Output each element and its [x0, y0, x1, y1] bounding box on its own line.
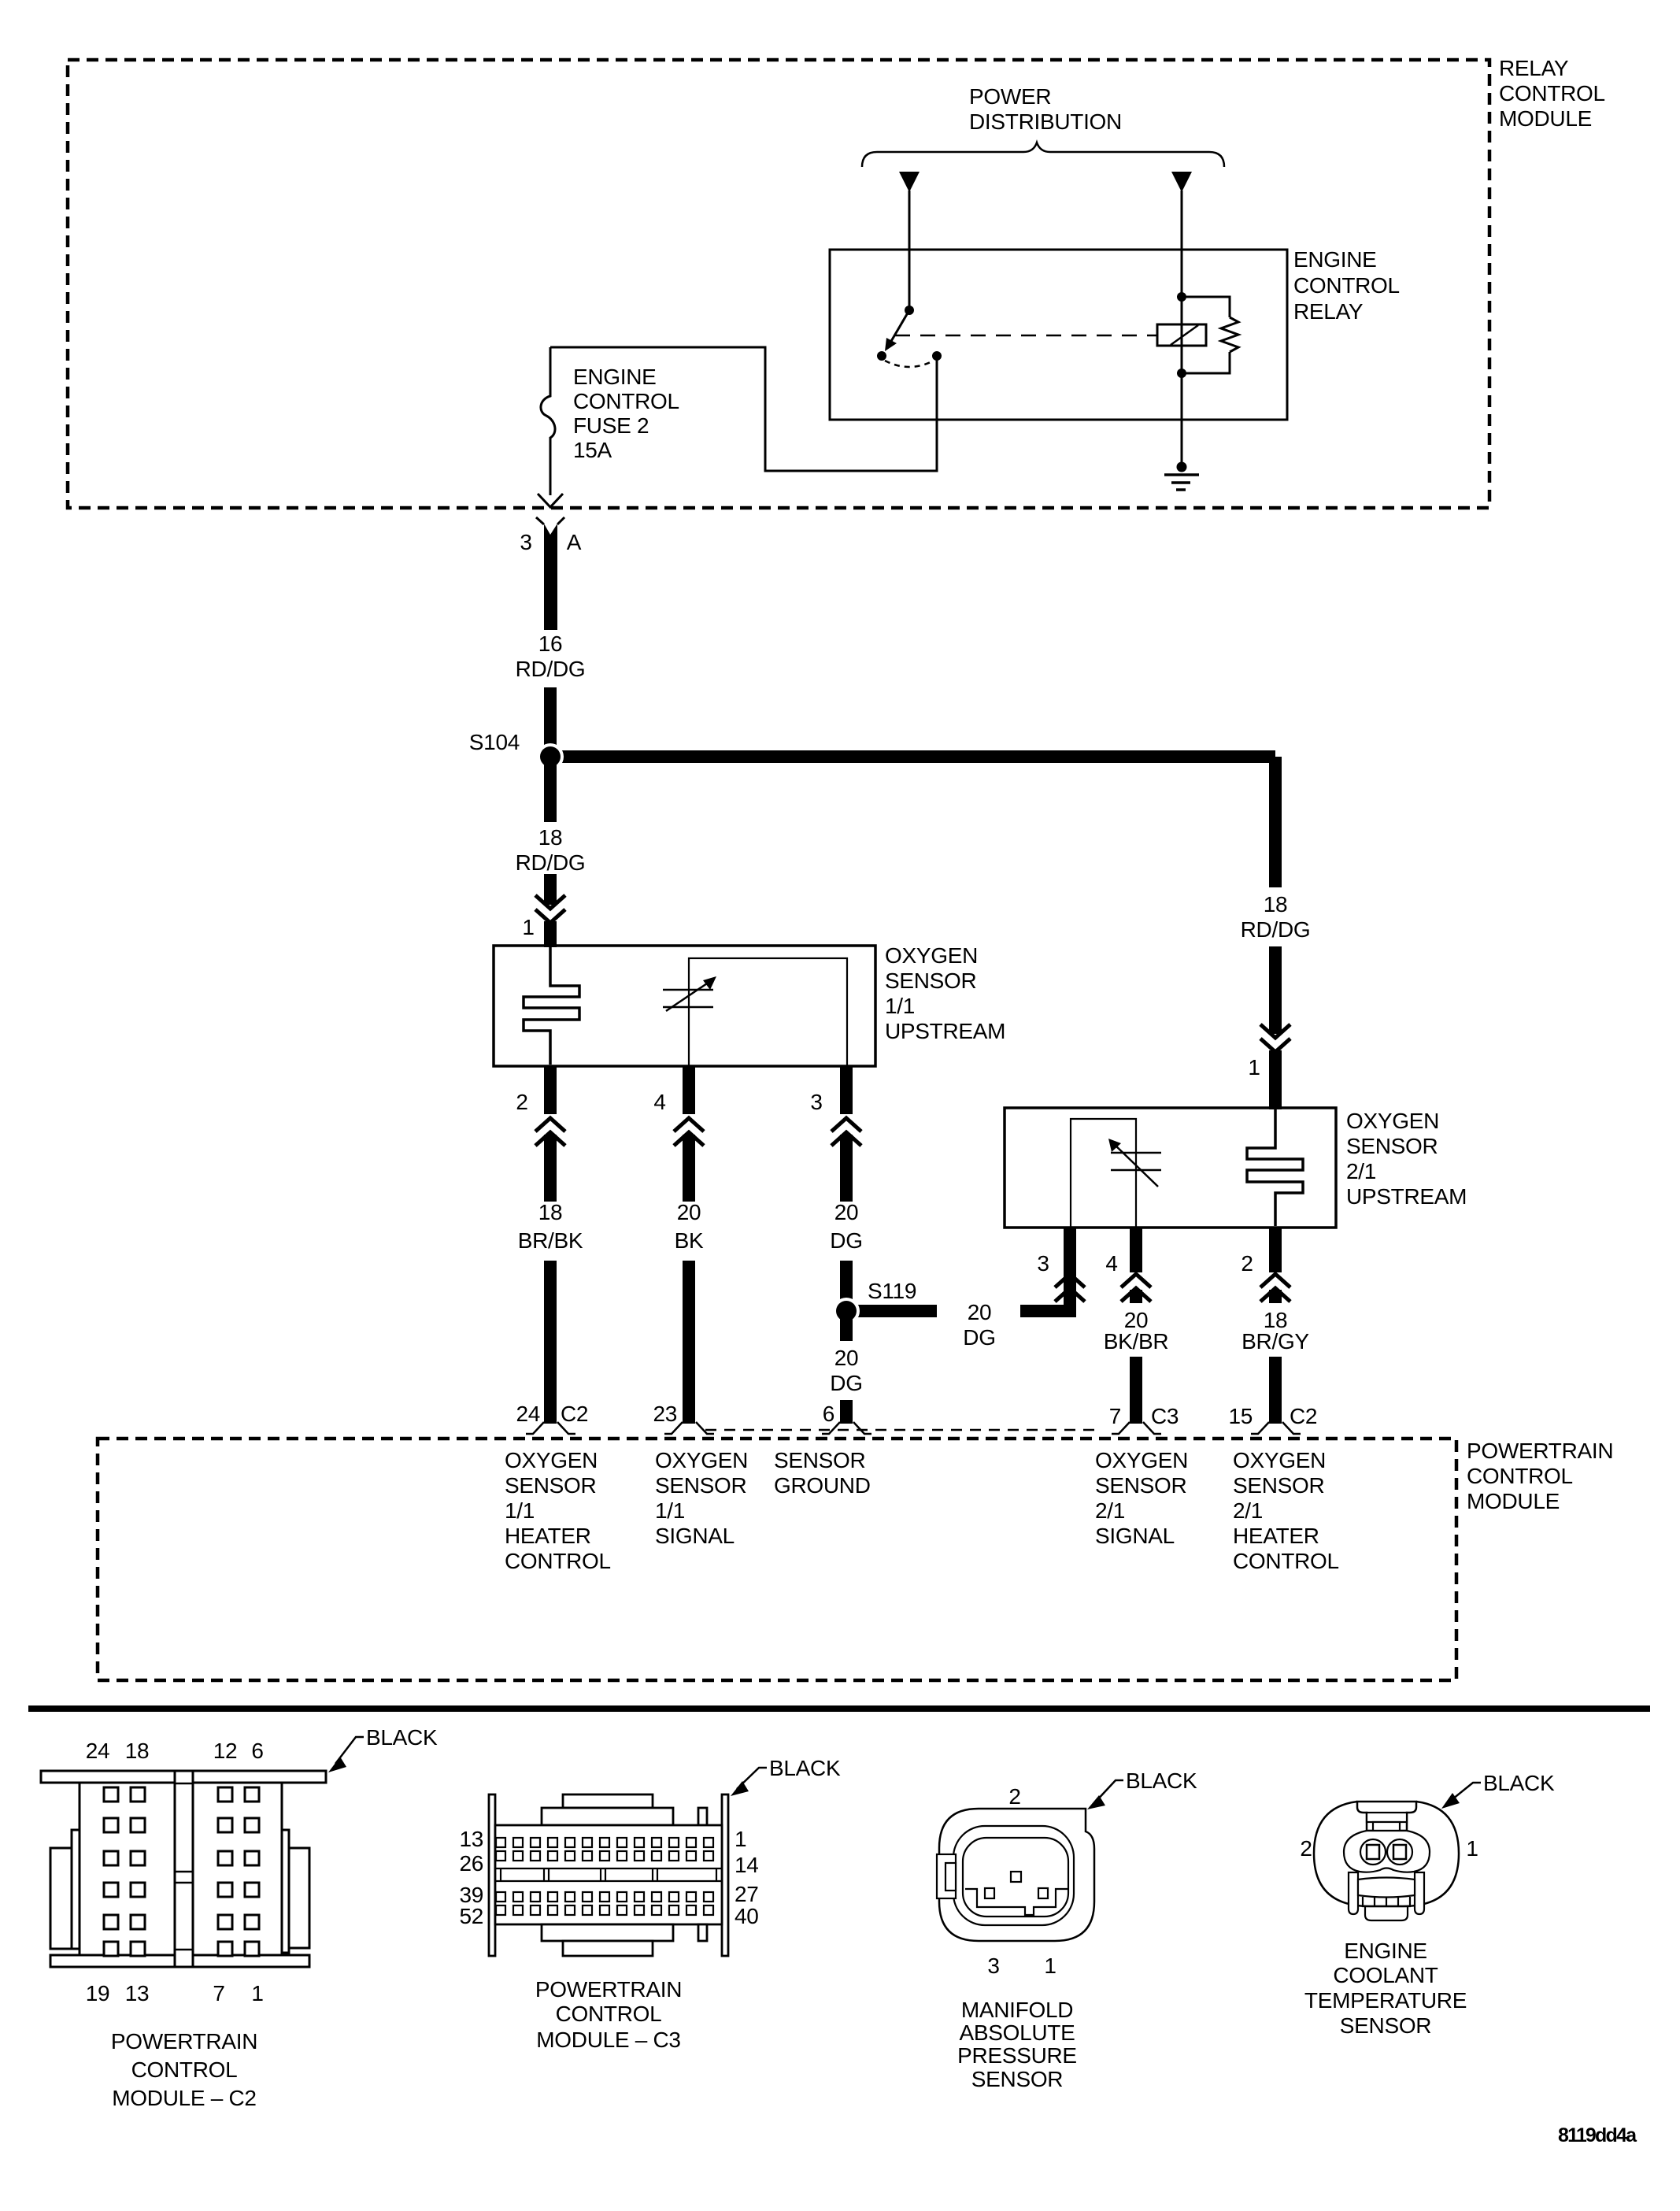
ECT left leg — [1349, 1872, 1358, 1914]
svg-text:MODULE: MODULE — [1467, 1489, 1560, 1513]
wire3 below S119 — [840, 1311, 853, 1341]
chevrons up wire5 — [1260, 1274, 1290, 1302]
svg-text:26: 26 — [459, 1851, 483, 1876]
O2 2/1 sensing element — [1111, 1143, 1161, 1187]
powertrain control module dashed box — [98, 1439, 1456, 1680]
svg-text:8119dd4a: 8119dd4a — [1558, 2124, 1637, 2146]
svg-text:3: 3 — [987, 1954, 999, 1978]
wire3 mid segment — [840, 1135, 853, 1202]
svg-text:RELAY: RELAY — [1499, 56, 1569, 80]
ECT teeth row — [1363, 1897, 1410, 1906]
switch travel dashed arc — [885, 361, 934, 367]
fork terminal wire2 — [664, 1422, 714, 1434]
svg-text:RD/DG: RD/DG — [516, 657, 586, 681]
svg-text:40: 40 — [735, 1904, 759, 1928]
MAP pin 1 square — [1038, 1888, 1048, 1898]
wire3 stub to PCM — [840, 1400, 853, 1424]
heater element O2 2/1 — [1247, 1109, 1303, 1226]
C3 bottom large protrusion — [542, 1924, 673, 1941]
wire from right arrow into relay — [1181, 191, 1183, 297]
wire4 mid stub — [1130, 1290, 1142, 1303]
svg-text:CONTROL: CONTROL — [1467, 1464, 1573, 1488]
svg-text:RD/DG: RD/DG — [1241, 917, 1311, 942]
relay coil control dashed line — [895, 335, 1157, 337]
oxygen sensor 1/1 box — [494, 946, 875, 1066]
svg-text:BLACK: BLACK — [1483, 1771, 1555, 1795]
svg-text:MANIFOLD: MANIFOLD — [961, 1998, 1073, 2022]
O2 2/1 pin3 wire — [1064, 1228, 1076, 1317]
svg-text:15: 15 — [1228, 1404, 1253, 1428]
label ENGINE CONTROL FUSE 2 15A — [573, 365, 679, 462]
C2 right body — [193, 1783, 282, 1955]
wire5 mid stub — [1269, 1290, 1282, 1303]
wire3 to splice S119 — [840, 1261, 853, 1311]
svg-text:CONTROL: CONTROL — [556, 2002, 662, 2026]
svg-text:1/1: 1/1 — [655, 1498, 685, 1523]
svg-text:20: 20 — [677, 1200, 701, 1224]
svg-text:3: 3 — [520, 530, 531, 554]
svg-text:BR/BK: BR/BK — [518, 1228, 583, 1253]
svg-text:POWER: POWER — [969, 84, 1051, 109]
wire pin2 O2 1/1 BR/BK upper — [544, 1066, 557, 1114]
svg-text:1: 1 — [1466, 1836, 1478, 1861]
wire 18 RD/DG below S104 — [544, 757, 557, 822]
svg-text:2/1: 2/1 — [1095, 1498, 1125, 1523]
chevrons up wire4 — [1121, 1274, 1151, 1302]
label MANIFOLD ABSOLUTE PRESSURE SENSOR — [957, 1998, 1077, 2091]
C3 left ear — [489, 1794, 495, 1956]
svg-text:SIGNAL: SIGNAL — [655, 1524, 735, 1548]
C3 pin grid — [496, 1838, 713, 1915]
svg-text:52: 52 — [459, 1904, 483, 1928]
svg-text:OXYGEN: OXYGEN — [1095, 1448, 1188, 1472]
svg-text:18: 18 — [538, 1200, 563, 1224]
svg-text:UPSTREAM: UPSTREAM — [1346, 1184, 1467, 1209]
chevrons up wire3 — [831, 1118, 861, 1146]
ECT tab ladder — [1367, 1813, 1407, 1822]
svg-text:PRESSURE: PRESSURE — [957, 2043, 1077, 2068]
C2 pin squares — [104, 1787, 259, 1956]
svg-text:ENGINE: ENGINE — [573, 365, 657, 389]
ECT right leg — [1415, 1872, 1424, 1914]
power feed arrow right — [1171, 172, 1192, 192]
svg-text:7: 7 — [213, 1981, 224, 2005]
svg-text:SENSOR: SENSOR — [971, 2067, 1063, 2091]
svg-text:BLACK: BLACK — [769, 1756, 841, 1780]
relay switch contact left — [877, 351, 886, 361]
svg-text:OXYGEN: OXYGEN — [655, 1448, 748, 1472]
C3 middle band — [495, 1868, 722, 1881]
svg-text:18: 18 — [538, 825, 563, 850]
svg-text:MODULE – C2: MODULE – C2 — [112, 2086, 256, 2110]
C2 bottom bar — [50, 1955, 309, 1967]
svg-text:RD/DG: RD/DG — [516, 850, 586, 875]
svg-text:C2: C2 — [561, 1402, 588, 1426]
svg-text:SENSOR: SENSOR — [505, 1473, 596, 1498]
svg-text:ENGINE: ENGINE — [1344, 1939, 1427, 1963]
C3 main body — [495, 1825, 722, 1924]
wire1 mid segment — [544, 1135, 557, 1202]
ECT body — [1314, 1802, 1459, 1906]
svg-text:CONTROL: CONTROL — [573, 389, 679, 413]
engine control fuse 2 — [541, 347, 555, 495]
wire2 lower segment — [683, 1261, 695, 1424]
wire segment to connector 1 right — [1269, 946, 1282, 1034]
svg-text:POWERTRAIN: POWERTRAIN — [111, 2029, 257, 2054]
inline connector chevrons (down) — [535, 895, 565, 923]
ECT inner cavity — [1344, 1831, 1430, 1872]
label ENGINE COOLANT TEMPERATURE SENSOR — [1304, 1939, 1467, 2038]
ECT chin — [1365, 1906, 1408, 1920]
chevrons up wire2 — [674, 1118, 704, 1146]
wire 16 RD/DG lower segment — [544, 687, 557, 757]
wire 16 RD/DG upper segment — [544, 524, 557, 630]
wire pin2 O2 2/1 BR/GY upper — [1269, 1228, 1282, 1272]
svg-text:2: 2 — [516, 1090, 527, 1114]
svg-text:DISTRIBUTION: DISTRIBUTION — [969, 109, 1122, 134]
C3 bottom right notch — [698, 1924, 707, 1941]
relay switch common node — [905, 306, 914, 315]
fork terminal wire1 — [526, 1422, 575, 1434]
svg-text:27: 27 — [735, 1882, 759, 1906]
wire pin4 O2 2/1 BK/BR upper — [1130, 1228, 1142, 1272]
svg-text:2/1: 2/1 — [1346, 1159, 1376, 1183]
svg-text:23: 23 — [653, 1402, 677, 1426]
fork terminal wire3 — [822, 1422, 871, 1434]
svg-text:1: 1 — [251, 1981, 263, 2005]
wire pin4 O2 1/1 BK upper — [683, 1066, 695, 1114]
label SENSOR GROUND — [774, 1448, 871, 1498]
C3 top right notch — [698, 1808, 707, 1825]
wire5 lower segment — [1269, 1357, 1282, 1424]
svg-text:2: 2 — [1300, 1836, 1312, 1861]
C3 top small protrusion — [563, 1794, 653, 1808]
splice wire S104 horizontal — [550, 750, 1275, 763]
relay coil box — [1157, 324, 1206, 346]
svg-text:SIGNAL: SIGNAL — [1095, 1524, 1175, 1548]
svg-text:20: 20 — [834, 1200, 859, 1224]
svg-text:24: 24 — [86, 1739, 110, 1763]
C3 bottom small protrusion — [563, 1941, 653, 1956]
coil vertical wire — [1181, 297, 1183, 373]
svg-text:DG: DG — [830, 1371, 862, 1395]
svg-text:POWERTRAIN: POWERTRAIN — [535, 1977, 682, 2002]
label ENGINE CONTROL RELAY — [1293, 247, 1400, 324]
svg-text:6: 6 — [823, 1402, 834, 1426]
svg-text:BLACK: BLACK — [1126, 1768, 1197, 1793]
power feed arrow left — [899, 172, 920, 192]
section separator line — [28, 1705, 1650, 1712]
wire4 lower segment — [1130, 1357, 1142, 1424]
svg-text:2: 2 — [1008, 1784, 1020, 1809]
svg-text:SENSOR: SENSOR — [1095, 1473, 1186, 1498]
ECT terminal 1 circle — [1387, 1839, 1412, 1865]
C2 left body — [80, 1783, 175, 1955]
svg-text:SENSOR: SENSOR — [774, 1448, 865, 1472]
ECT terminal 1 square — [1393, 1845, 1406, 1859]
svg-text:6: 6 — [251, 1739, 263, 1763]
svg-text:COOLANT: COOLANT — [1333, 1963, 1438, 1987]
MAP middle ring — [953, 1826, 1074, 1925]
C3 right ear — [722, 1794, 728, 1956]
svg-text:DG: DG — [963, 1325, 995, 1350]
inline connector chevrons right (down) — [1260, 1024, 1290, 1052]
svg-text:BK/BR: BK/BR — [1104, 1329, 1169, 1354]
oxygen sensor 2/1 box — [1005, 1108, 1336, 1228]
ground node — [1177, 462, 1187, 472]
svg-text:1/1: 1/1 — [505, 1498, 535, 1523]
wire segment to connector 1 — [544, 874, 557, 905]
svg-text:3: 3 — [810, 1090, 822, 1114]
svg-text:1: 1 — [735, 1827, 746, 1851]
svg-text:HEATER: HEATER — [505, 1524, 591, 1548]
label POWERTRAIN CONTROL MODULE — [1467, 1439, 1613, 1513]
O2 1/1 inner box — [689, 958, 847, 1066]
label OXYGEN SENSOR 1/1 HEATER CONTROL — [505, 1448, 611, 1573]
svg-text:14: 14 — [735, 1853, 759, 1877]
svg-text:S104: S104 — [469, 730, 520, 754]
svg-text:UPSTREAM: UPSTREAM — [885, 1019, 1005, 1043]
MAP inner ring — [963, 1838, 1068, 1917]
PCM C2 connector drawing — [41, 1771, 326, 1967]
svg-text:FUSE 2: FUSE 2 — [573, 413, 649, 438]
svg-text:CONTROL: CONTROL — [1233, 1549, 1339, 1573]
label OXYGEN SENSOR 2/1 SIGNAL — [1095, 1448, 1188, 1548]
svg-text:C3: C3 — [1151, 1404, 1179, 1428]
C2 center divider — [175, 1771, 193, 1967]
label RELAY CONTROL MODULE — [1499, 56, 1605, 131]
splice S119 — [833, 1298, 860, 1324]
label OXYGEN SENSOR 2/1 HEATER CONTROL — [1233, 1448, 1339, 1573]
svg-text:MODULE: MODULE — [1499, 106, 1592, 131]
brace under POWER DISTRIBUTION — [862, 143, 1224, 167]
svg-text:18: 18 — [1264, 892, 1288, 917]
label OXYGEN SENSOR 1/1 UPSTREAM — [885, 943, 1005, 1043]
svg-text:CONTROL: CONTROL — [1499, 81, 1605, 106]
splice S104 — [537, 743, 564, 770]
svg-text:7: 7 — [1109, 1404, 1121, 1428]
wire from left arrow to switch — [908, 191, 911, 310]
fork terminal wire4 — [1112, 1422, 1161, 1434]
svg-text:CONTROL: CONTROL — [505, 1549, 611, 1573]
relay control module dashed box — [68, 60, 1489, 508]
ECT terminal 2 square — [1367, 1845, 1379, 1859]
svg-text:ABSOLUTE: ABSOLUTE — [960, 2020, 1075, 2045]
relay coil bottom node — [1177, 368, 1186, 378]
wire into O2 2/1 — [1269, 1050, 1282, 1109]
label POWER DISTRIBUTION — [969, 84, 1122, 134]
svg-text:BLACK: BLACK — [366, 1725, 438, 1750]
svg-text:12: 12 — [213, 1739, 238, 1763]
svg-text:TEMPERATURE: TEMPERATURE — [1304, 1988, 1467, 2013]
resistor parallel branch — [1182, 297, 1238, 373]
svg-text:POWERTRAIN: POWERTRAIN — [1467, 1439, 1613, 1463]
MAP pin 3 square — [985, 1888, 994, 1898]
label POWERTRAIN CONTROL MODULE - C2 — [111, 2029, 257, 2110]
svg-text:13: 13 — [125, 1981, 150, 2005]
label POWERTRAIN CONTROL MODULE - C3 — [535, 1977, 682, 2052]
heater element O2 1/1 — [524, 947, 579, 1065]
svg-text:A: A — [567, 530, 582, 554]
S119 horizontal wire left — [846, 1305, 937, 1317]
wire switch to fuse loop — [550, 347, 937, 471]
O2 1/1 sensing element — [663, 980, 713, 1011]
chevrons up pin3 — [1055, 1274, 1085, 1302]
svg-text:13: 13 — [459, 1827, 483, 1851]
C2 top bar — [41, 1771, 326, 1783]
svg-text:SENSOR: SENSOR — [1233, 1473, 1324, 1498]
svg-text:4: 4 — [653, 1090, 665, 1114]
svg-text:GROUND: GROUND — [774, 1473, 871, 1498]
fuse output arrowhead — [538, 494, 563, 507]
right branch wire 18 RD/DG — [1269, 757, 1282, 887]
svg-text:16: 16 — [538, 631, 563, 656]
svg-text:DG: DG — [830, 1228, 862, 1253]
C2 right outer tab — [289, 1848, 309, 1948]
svg-text:18: 18 — [125, 1739, 150, 1763]
svg-text:OXYGEN: OXYGEN — [1233, 1448, 1326, 1472]
wire pin3 O2 1/1 DG upper — [840, 1066, 853, 1114]
relay switch arm arrow — [890, 310, 909, 343]
svg-text:OXYGEN: OXYGEN — [1346, 1109, 1439, 1133]
O2 2/1 inner box — [1071, 1119, 1136, 1228]
engine control relay box — [830, 250, 1287, 420]
svg-text:OXYGEN: OXYGEN — [885, 943, 978, 968]
svg-text:SENSOR: SENSOR — [1340, 2013, 1431, 2038]
MAP pin 2 square — [1011, 1872, 1021, 1882]
svg-text:BR/GY: BR/GY — [1241, 1329, 1309, 1354]
svg-text:19: 19 — [86, 1981, 110, 2005]
wire2 mid segment — [683, 1135, 695, 1202]
svg-text:BK: BK — [675, 1228, 704, 1253]
wire1 lower segment — [544, 1261, 557, 1424]
S119 horizontal wire right — [1020, 1305, 1075, 1317]
C2 left step tab — [72, 1830, 80, 1949]
svg-text:SENSOR: SENSOR — [885, 968, 976, 993]
svg-text:MODULE – C3: MODULE – C3 — [536, 2028, 680, 2052]
svg-text:RELAY: RELAY — [1293, 299, 1364, 324]
svg-text:1: 1 — [1044, 1954, 1056, 1978]
svg-text:4: 4 — [1105, 1251, 1117, 1276]
svg-text:3: 3 — [1037, 1251, 1049, 1276]
svg-text:20: 20 — [968, 1300, 992, 1324]
svg-text:CONTROL: CONTROL — [1293, 273, 1400, 298]
C2 left outer tab — [50, 1848, 72, 1949]
label OXYGEN SENSOR 1/1 SIGNAL — [655, 1448, 748, 1548]
svg-text:ENGINE: ENGINE — [1293, 247, 1377, 272]
wire into O2 1/1 — [544, 921, 557, 947]
wire coil to ground — [1181, 373, 1183, 467]
svg-text:1/1: 1/1 — [885, 994, 915, 1018]
svg-text:OXYGEN: OXYGEN — [505, 1448, 598, 1472]
svg-text:2: 2 — [1241, 1251, 1253, 1276]
svg-text:SENSOR: SENSOR — [1346, 1134, 1438, 1158]
svg-text:C2: C2 — [1290, 1404, 1317, 1428]
MAP outer shell — [939, 1809, 1094, 1941]
ECT top tab — [1357, 1802, 1416, 1831]
C2 right step tab — [282, 1830, 289, 1953]
relay switch contact right — [932, 351, 942, 361]
svg-text:2/1: 2/1 — [1233, 1498, 1263, 1523]
svg-text:1: 1 — [1248, 1055, 1260, 1080]
relay coil top node — [1177, 292, 1186, 302]
svg-text:24: 24 — [516, 1402, 540, 1426]
inner thin dashed boundary segment — [705, 1429, 1102, 1431]
svg-text:SENSOR: SENSOR — [655, 1473, 746, 1498]
ECT terminal 2 circle — [1360, 1839, 1386, 1865]
svg-text:S119: S119 — [868, 1279, 916, 1303]
label OXYGEN SENSOR 2/1 UPSTREAM — [1346, 1109, 1467, 1209]
ECT mouth — [1358, 1878, 1415, 1898]
ground symbol — [1164, 475, 1199, 490]
chevrons up wire1 — [535, 1118, 565, 1146]
fork terminal wire5 — [1251, 1422, 1301, 1434]
MAP left tab — [937, 1854, 956, 1898]
svg-text:CONTROL: CONTROL — [131, 2057, 238, 2082]
connector A at module boundary — [536, 517, 564, 524]
svg-text:20: 20 — [834, 1346, 859, 1370]
svg-text:HEATER: HEATER — [1233, 1524, 1319, 1548]
svg-text:1: 1 — [522, 915, 534, 939]
MAP keyway — [965, 1889, 1068, 1915]
PCM C3 connector drawing — [489, 1794, 728, 1956]
svg-text:15A: 15A — [573, 438, 612, 462]
C3 top large protrusion — [542, 1808, 673, 1825]
